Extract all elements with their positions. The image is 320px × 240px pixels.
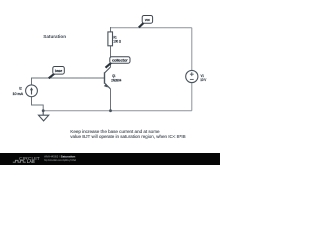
svg-text:10 V: 10 V xyxy=(200,78,207,82)
wire bottom ground rail xyxy=(43,110,192,112)
wire V1 right vertical bottom xyxy=(191,83,193,111)
voltage source V1 xyxy=(186,70,198,82)
wire I2 bottom to ground junction xyxy=(32,97,44,111)
wire R1 top stub xyxy=(110,27,112,32)
node collector flag xyxy=(110,57,130,64)
svg-text:value BJT will operate in satu: value BJT will operate in saturation reg… xyxy=(70,134,185,139)
watermark bar xyxy=(0,153,220,165)
svg-text:2N3904: 2N3904 xyxy=(111,78,121,82)
wire base rail (I2 top to Q1 base) xyxy=(32,78,105,86)
svg-text:http://circuitlab.com/c4pbb1cy: http://circuitlab.com/c4pbb1cy7w5a2 xyxy=(44,158,76,162)
junction dot at emitter node xyxy=(109,109,112,112)
wire top rail vcc (R1 top to V1 top) xyxy=(110,27,192,29)
svg-text:vcc: vcc xyxy=(145,18,150,22)
wire collector vertical (R1 bottom to Q1 collector) xyxy=(110,46,112,67)
watermark logo waveform xyxy=(13,160,26,162)
svg-text:100 Ω: 100 Ω xyxy=(113,40,121,44)
svg-text:I2: I2 xyxy=(19,86,22,90)
resistor R1 xyxy=(108,32,113,46)
ground xyxy=(39,111,49,121)
node collector flag pointer xyxy=(106,63,112,68)
node vcc flag pointer xyxy=(139,23,144,28)
transistor Q1 xyxy=(104,67,111,89)
node vcc flag xyxy=(142,16,152,24)
svg-text:10 mA: 10 mA xyxy=(13,92,24,96)
node base flag pointer xyxy=(49,74,55,79)
svg-text:base: base xyxy=(55,69,62,73)
svg-text:collector: collector xyxy=(112,58,129,62)
svg-text:LAB: LAB xyxy=(27,159,35,164)
wire emitter vertical (Q1 emitter to ground rail) xyxy=(110,89,112,111)
svg-text:Saturation: Saturation xyxy=(43,34,66,39)
wire V1 right vertical top xyxy=(191,28,193,71)
junction dot at ground node xyxy=(42,109,45,112)
node base flag xyxy=(53,67,65,75)
current source I2 xyxy=(26,85,38,97)
